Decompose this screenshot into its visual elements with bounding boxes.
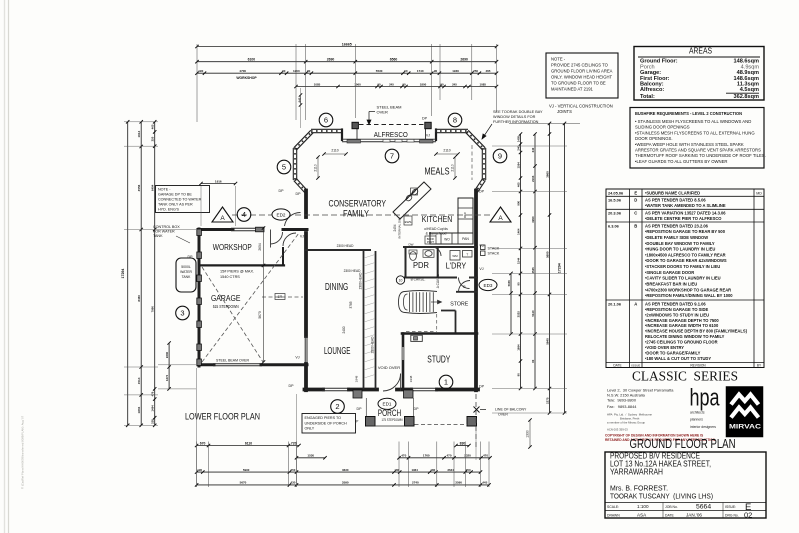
svg-text:2306: 2306: [165, 351, 169, 358]
svg-text:THERMOTUFF ROOF SARKING TO UND: THERMOTUFF ROOF SARKING TO UNDERSIDE OF …: [635, 153, 766, 158]
svg-text:1914: 1914: [137, 130, 141, 137]
svg-text:LOWER FLOOR PLAN: LOWER FLOOR PLAN: [185, 412, 260, 422]
svg-text:362.8sqm: 362.8sqm: [734, 94, 760, 100]
svg-text:240: 240: [531, 147, 535, 152]
svg-text:DW: DW: [409, 243, 414, 247]
svg-text:B: B: [634, 223, 637, 228]
svg-text:1804: 1804: [137, 406, 141, 413]
svg-text:•4700x2300 WORKSHOP TO GARAGE: •4700x2300 WORKSHOP TO GARAGE REAR: [645, 287, 731, 292]
svg-text:•1800x4500 ALFRESCO TO FAMILY: •1800x4500 ALFRESCO TO FAMILY REAR: [645, 252, 726, 257]
svg-text:250: 250: [291, 468, 296, 472]
svg-text:2740: 2740: [412, 481, 419, 485]
svg-text:JOINTS: JOINTS: [557, 109, 572, 114]
svg-text:BUSHFIRE REQUIREMENTS - LEVEL: BUSHFIRE REQUIREMENTS - LEVEL 2 CONSTRUC…: [635, 111, 743, 116]
svg-text:•REPOSITION GARAGE TO REAR BY: •REPOSITION GARAGE TO REAR BY 500: [645, 229, 726, 234]
svg-text:1494: 1494: [151, 405, 155, 412]
svg-text:DP: DP: [289, 384, 295, 388]
svg-text:190: 190: [198, 69, 203, 73]
svg-text:90: 90: [404, 69, 408, 73]
svg-text:1270: 1270: [165, 374, 169, 381]
svg-text:445: 445: [482, 481, 487, 485]
svg-text:1464: 1464: [516, 228, 520, 235]
svg-text:ONLY: ONLY: [305, 427, 315, 431]
svg-text:T: T: [466, 252, 468, 256]
svg-text:FOR WATER: FOR WATER: [153, 230, 175, 234]
svg-text:5990: 5990: [243, 468, 250, 472]
svg-text:2110: 2110: [331, 149, 338, 153]
svg-text:Fax: 9893-8844: Fax: 9893-8844: [607, 404, 637, 409]
svg-text:•WATER TANK AMENDED TO A SLIML: •WATER TANK AMENDED TO A SLIMLINE: [645, 203, 726, 208]
svg-text:DP: DP: [422, 117, 428, 121]
svg-text:24.05.06: 24.05.06: [608, 190, 624, 195]
svg-text:•LEAF GUARDS TO ALL GUTTERS BY: •LEAF GUARDS TO ALL GUTTERS BY OWNER: [635, 159, 728, 164]
svg-text:VJ: VJ: [479, 267, 483, 271]
svg-text:17294: 17294: [121, 269, 125, 279]
svg-text:EWS: EWS: [405, 220, 412, 224]
svg-text:WO: WO: [444, 238, 450, 242]
svg-text:90: 90: [440, 82, 444, 86]
svg-text:ONLY. WINDOW HEAD HEIGHT: ONLY. WINDOW HEAD HEIGHT: [551, 75, 612, 80]
svg-text:5640: 5640: [545, 338, 549, 345]
svg-text:MAINTAINED AT 2191: MAINTAINED AT 2191: [551, 87, 594, 92]
svg-text:UNDERSIDE OF PORCH: UNDERSIDE OF PORCH: [305, 421, 348, 425]
svg-text:Tele: 9893-8800: Tele: 9893-8800: [607, 398, 637, 403]
svg-text:2275: 2275: [545, 397, 549, 404]
svg-text:VJ: VJ: [300, 235, 304, 239]
svg-text:NOTE -: NOTE -: [158, 188, 171, 192]
svg-text:2110: 2110: [443, 149, 450, 153]
svg-text:STORE: STORE: [450, 302, 468, 308]
svg-text:250: 250: [151, 136, 155, 141]
svg-text:MIRVAC: MIRVAC: [729, 424, 761, 431]
svg-text:15# PIERS @ MAX.: 15# PIERS @ MAX.: [220, 270, 254, 274]
svg-text:1085: 1085: [480, 82, 487, 86]
svg-text:3: 3: [180, 309, 184, 318]
svg-text:CONTROL BOX: CONTROL BOX: [153, 225, 180, 229]
svg-text:FAMILY: FAMILY: [343, 209, 369, 219]
svg-text:A: A: [634, 301, 637, 306]
svg-text:ED2: ED2: [277, 212, 286, 217]
svg-text:6560: 6560: [390, 58, 398, 62]
svg-text:hpa: hpa: [690, 385, 720, 412]
svg-text:4700: 4700: [239, 69, 246, 73]
svg-text:ISSUE: ISSUE: [631, 363, 640, 367]
svg-text:•CAVITY SLIDER TO LAUNDRY IN L: •CAVITY SLIDER TO LAUNDRY IN LIEU: [645, 276, 721, 281]
svg-text:465: 465: [151, 124, 155, 129]
svg-text:1916: 1916: [215, 179, 222, 183]
svg-text:•DELETE FAMILY SIDE WINDOW: •DELETE FAMILY SIDE WINDOW: [645, 235, 708, 240]
svg-text:4: 4: [242, 210, 246, 219]
svg-text:7: 7: [390, 152, 394, 161]
svg-text:1530: 1530: [307, 454, 314, 458]
svg-text:INTERNAL DIM: INTERNAL DIM: [398, 217, 402, 239]
svg-text:© (CadRef Plans/HH0059/transfe: © (CadRef Plans/HH0059/transferred 8089/…: [21, 415, 25, 489]
svg-text:DOOR OPENINGS.: DOOR OPENINGS.: [635, 136, 673, 141]
svg-text:990: 990: [516, 200, 520, 205]
svg-text:8460: 8460: [137, 295, 141, 302]
svg-text:NOTE -: NOTE -: [551, 57, 566, 62]
svg-text:WM: WM: [452, 254, 458, 258]
svg-text:6110: 6110: [245, 441, 252, 445]
svg-text:9: 9: [498, 152, 502, 161]
svg-text:1544: 1544: [516, 257, 520, 264]
svg-text:1085: 1085: [314, 82, 321, 86]
svg-text:470: 470: [446, 454, 451, 458]
svg-text:• STAINLESS MESH FLYSCREENS TO: • STAINLESS MESH FLYSCREENS TO ALL WINDO…: [635, 119, 751, 124]
svg-text:2690: 2690: [460, 58, 468, 62]
svg-text:3785: 3785: [349, 301, 353, 308]
svg-text:VJ: VJ: [479, 244, 483, 248]
svg-text:AS PER TENDER DATED 9.1.06: AS PER TENDER DATED 9.1.06: [645, 301, 706, 306]
svg-text:WORKSHOP: WORKSHOP: [213, 243, 252, 252]
svg-text:TO GROUND FLOOR TO BE: TO GROUND FLOOR TO BE: [551, 81, 606, 86]
svg-text:architects: architects: [690, 411, 705, 415]
svg-text:2103: 2103: [531, 175, 535, 182]
svg-text:180: 180: [430, 468, 435, 472]
svg-text:•DOOR TO GARAGE REAR &2xWINDOW: •DOOR TO GARAGE REAR &2xWINDOWS: [645, 258, 727, 263]
svg-text:90: 90: [307, 69, 311, 73]
svg-text:CONNECTED TO WATER: CONNECTED TO WATER: [158, 198, 202, 202]
svg-text:6.3.06: 6.3.06: [608, 223, 620, 228]
svg-text:6: 6: [324, 116, 328, 125]
svg-text:245: 245: [452, 82, 457, 86]
svg-text:o/HEAD Cup'ds: o/HEAD Cup'ds: [424, 227, 448, 231]
svg-text:3590: 3590: [342, 481, 349, 485]
svg-text:VOID OVER: VOID OVER: [378, 365, 400, 370]
svg-text:830: 830: [460, 441, 466, 445]
svg-text:ASA: ASA: [637, 513, 647, 518]
svg-text:STEEL BEAM OVER: STEEL BEAM OVER: [216, 359, 249, 363]
svg-text:90: 90: [282, 69, 286, 73]
svg-text:DATE: DATE: [613, 363, 621, 367]
svg-text:CLASSIC SERIES: CLASSIC SERIES: [632, 369, 738, 384]
svg-text:5000L: 5000L: [181, 265, 191, 269]
svg-text:DP: DP: [479, 385, 485, 389]
svg-text:DP: DP: [357, 407, 363, 411]
svg-text:•REPOSITION GARAGE TO SIDE: •REPOSITION GARAGE TO SIDE: [645, 307, 708, 312]
svg-text:A: A: [498, 215, 503, 222]
svg-text:STUDY: STUDY: [427, 355, 450, 366]
svg-text:ENGAGED PIERS TO: ENGAGED PIERS TO: [305, 416, 342, 420]
svg-text:SLIDING DOOR OPENINGS: SLIDING DOOR OPENINGS: [635, 125, 690, 130]
svg-text:VJ: VJ: [295, 356, 299, 360]
svg-text:SCALE:: SCALE:: [607, 505, 619, 509]
svg-text:16665: 16665: [342, 42, 352, 46]
svg-text:AS PER TENDER DATED 8.5.06: AS PER TENDER DATED 8.5.06: [645, 198, 706, 203]
svg-text:90: 90: [434, 69, 438, 73]
svg-text:20.1.06: 20.1.06: [608, 301, 622, 306]
svg-text:A: A: [220, 215, 225, 222]
svg-text:2300 HEAD: 2300 HEAD: [337, 244, 355, 248]
svg-text:ALFRESCO: ALFRESCO: [374, 130, 408, 139]
svg-text:8: 8: [453, 116, 457, 125]
svg-text:DATE: DATE: [665, 514, 675, 518]
svg-text:OVER: OVER: [377, 110, 388, 115]
svg-text:90: 90: [402, 82, 406, 86]
svg-text:3660: 3660: [545, 171, 549, 178]
svg-text:GARAGE DP TO BE: GARAGE DP TO BE: [158, 193, 192, 197]
svg-text:•INCREASE HOUSE DEPTH BY 800 (: •INCREASE HOUSE DEPTH BY 800 (FAMILY/MEA…: [645, 329, 748, 334]
svg-text:02: 02: [744, 511, 752, 520]
svg-text:720: 720: [291, 441, 297, 445]
svg-text:•STAINLESS MESH FLYSCREENS TO: •STAINLESS MESH FLYSCREENS TO ALL EXTERN…: [635, 130, 755, 135]
svg-text:TANK: TANK: [182, 275, 192, 279]
svg-text:2110: 2110: [313, 164, 317, 171]
svg-text:D: D: [634, 198, 637, 203]
svg-text:•HUNG DOOR TO LAUNDRY IN LIEU: •HUNG DOOR TO LAUNDRY IN LIEU: [645, 247, 715, 252]
svg-text:2: 2: [335, 402, 339, 411]
svg-text:2604: 2604: [258, 243, 262, 251]
svg-text:476: 476: [151, 391, 155, 396]
svg-text:2525: 2525: [531, 267, 535, 274]
svg-text:REVISION: REVISION: [690, 363, 706, 367]
svg-text:3634: 3634: [447, 468, 454, 472]
svg-text:430: 430: [290, 481, 295, 485]
svg-text:•INCREASE GARAGE WIDTH TO 6100: •INCREASE GARAGE WIDTH TO 6100: [645, 323, 719, 328]
svg-text:& Rangehood: & Rangehood: [426, 232, 447, 236]
svg-text:VJ: VJ: [426, 134, 430, 138]
svg-text:5670: 5670: [240, 481, 247, 485]
svg-text:1: 1: [444, 378, 448, 387]
svg-text:20.3.06: 20.3.06: [608, 211, 622, 216]
svg-text:KITCHEN: KITCHEN: [422, 214, 453, 224]
svg-text:1200: 1200: [293, 69, 300, 73]
svg-text:ED1: ED1: [383, 402, 392, 407]
svg-text:515 STEPDOWN: 515 STEPDOWN: [213, 304, 239, 309]
svg-text:•DELETE CENTRE PIER TO ALFRESC: •DELETE CENTRE PIER TO ALFRESCO: [645, 216, 722, 221]
svg-text:465: 465: [516, 182, 520, 187]
svg-text:DP: DP: [479, 190, 485, 194]
svg-text:190: 190: [197, 468, 202, 472]
svg-text:1740: 1740: [417, 69, 424, 73]
svg-text:•DOUBLE BAY WINDOW TO FAMILY: •DOUBLE BAY WINDOW TO FAMILY: [645, 241, 715, 246]
svg-text:SEE TOORAK DOUBLE BAY: SEE TOORAK DOUBLE BAY: [493, 110, 543, 114]
svg-text:Alfresco:: Alfresco:: [640, 87, 664, 93]
svg-text:L'DRY: L'DRY: [446, 261, 467, 271]
svg-text:PAN: PAN: [462, 237, 469, 241]
svg-text:DINING: DINING: [325, 281, 348, 293]
svg-text:1930: 1930: [452, 69, 459, 73]
svg-text:planners: planners: [690, 418, 703, 422]
svg-text:CONSERVATORY: CONSERVATORY: [329, 199, 387, 209]
svg-text:645: 645: [298, 97, 302, 102]
svg-text:HYD. ENG'S: HYD. ENG'S: [158, 208, 180, 212]
svg-text:a member of the Mirvac Group: a member of the Mirvac Group: [607, 421, 645, 425]
svg-text:1948: 1948: [355, 375, 359, 382]
svg-text:PDR: PDR: [413, 260, 429, 270]
svg-text:LOUNGE: LOUNGE: [324, 345, 351, 357]
svg-text:MD: MD: [756, 191, 762, 195]
svg-text:•INCREASE GARAGE DEPTH TO 7500: •INCREASE GARAGE DEPTH TO 7500: [645, 318, 719, 323]
svg-text:DP: DP: [279, 189, 285, 193]
svg-text:17294: 17294: [558, 263, 562, 273]
svg-text:7990: 7990: [151, 306, 155, 313]
svg-text:•WEEPA WEEP HOLE WITH STAINLES: •WEEPA WEEP HOLE WITH STAINLESS STEEL SP…: [635, 142, 744, 147]
svg-text:5530: 5530: [376, 69, 383, 73]
svg-text:TANK ONLY AS PER: TANK ONLY AS PER: [158, 203, 193, 207]
svg-text:1540 CTRS: 1540 CTRS: [220, 275, 240, 279]
svg-text:AREAS: AREAS: [689, 46, 712, 56]
svg-text:2300 HEAD: 2300 HEAD: [344, 269, 362, 273]
svg-text:ISSUE:: ISSUE:: [725, 505, 736, 509]
svg-text:•REPOSITION FAMILY/DINING WALL: •REPOSITION FAMILY/DINING WALL BY 1000: [645, 293, 733, 298]
svg-text:2300 HEAD: 2300 HEAD: [371, 336, 375, 354]
svg-text:90: 90: [377, 82, 381, 86]
svg-text:ARRESTOR GRATES AND SQUARE VEN: ARRESTOR GRATES AND SQUARE VENT SPARK AR…: [635, 148, 761, 153]
svg-text:•SINGLE GARAGE DOOR: •SINGLE GARAGE DOOR: [645, 270, 694, 275]
svg-text:1564: 1564: [516, 162, 520, 169]
svg-text:•SUBURB NAME CLARIFIED: •SUBURB NAME CLARIFIED: [645, 190, 700, 195]
svg-text:A CAV.SL.: A CAV.SL.: [436, 274, 440, 289]
svg-text:•2745 CEILINGS TO GROUND FLOOR: •2745 CEILINGS TO GROUND FLOOR: [645, 340, 718, 345]
svg-text:interior designers: interior designers: [690, 425, 716, 429]
svg-text:GROUND FLOOR PLAN: GROUND FLOOR PLAN: [630, 437, 736, 451]
svg-text:ACN 003 359 03: ACN 003 359 03: [607, 428, 628, 432]
svg-text:240: 240: [516, 145, 520, 150]
svg-text:175 STEPDOWN: 175 STEPDOWN: [382, 418, 403, 422]
svg-text:WORKSHOP: WORKSHOP: [236, 76, 257, 80]
svg-text:250: 250: [151, 419, 155, 424]
svg-text:YARRAWARRAH: YARRAWARRAH: [610, 468, 663, 477]
svg-text:2300 HEAD: 2300 HEAD: [359, 272, 363, 290]
svg-text:DRG No.: DRG No.: [725, 514, 739, 518]
svg-text:STACK: STACK: [488, 252, 500, 256]
svg-text:DRAWN: DRAWN: [607, 514, 620, 518]
svg-text:•VOID OVER ENTRY: •VOID OVER ENTRY: [645, 345, 684, 350]
svg-text:16.5.06: 16.5.06: [608, 198, 622, 203]
svg-text:5690: 5690: [545, 251, 549, 258]
svg-text:REC: REC: [463, 211, 467, 218]
svg-text:670: 670: [200, 441, 206, 445]
svg-text:4.5sqm: 4.5sqm: [740, 87, 759, 93]
svg-text:ED3: ED3: [484, 283, 493, 288]
svg-text:5: 5: [282, 163, 286, 172]
svg-text:•2xWINDOWS TO STUDY IN LIEU: •2xWINDOWS TO STUDY IN LIEU: [645, 312, 709, 317]
svg-text:1760: 1760: [423, 454, 430, 458]
svg-text:5035: 5035: [507, 280, 511, 287]
svg-text:2110: 2110: [450, 164, 454, 171]
svg-text:3630: 3630: [342, 468, 349, 472]
svg-text:465: 465: [485, 69, 490, 73]
svg-text:2690: 2690: [327, 58, 335, 62]
svg-text:GARAGE: GARAGE: [211, 294, 241, 303]
svg-text:AS PER TENDER DATED 23.2.06: AS PER TENDER DATED 23.2.06: [645, 223, 709, 228]
svg-text:1485: 1485: [516, 135, 520, 142]
svg-text:B CAV.SL.: B CAV.SL.: [411, 278, 426, 282]
svg-text:3290: 3290: [531, 216, 535, 223]
svg-text:PROVIDE 2745 CEILINGS TO: PROVIDE 2745 CEILINGS TO: [551, 63, 609, 68]
svg-text:470: 470: [483, 454, 488, 458]
svg-text:WINDOW DETAILS FOR: WINDOW DETAILS FOR: [493, 115, 536, 119]
svg-text:•180 WALL & CUT OUT TO STUDY: •180 WALL & CUT OUT TO STUDY: [645, 356, 711, 361]
svg-text:PORCH: PORCH: [378, 408, 402, 418]
svg-text:1800: 1800: [420, 82, 427, 86]
svg-text:PORT: PORT: [427, 240, 435, 244]
svg-text:LINE OF BALCONY: LINE OF BALCONY: [495, 408, 527, 412]
svg-text:2400: 2400: [342, 326, 346, 333]
svg-text:MEALS: MEALS: [425, 167, 450, 178]
svg-text:JOB No.: JOB No.: [665, 505, 678, 509]
svg-text:6494: 6494: [151, 184, 155, 191]
svg-text:10: 10: [399, 279, 403, 283]
svg-text:1514: 1514: [137, 377, 141, 384]
svg-text:6100: 6100: [248, 58, 256, 62]
svg-text:5664: 5664: [696, 504, 711, 511]
svg-text:250: 250: [466, 468, 471, 472]
svg-text:BR: BR: [278, 295, 283, 299]
svg-text:VJ - VERTICAL CONSTRUCTION: VJ - VERTICAL CONSTRUCTION: [549, 104, 613, 109]
svg-text:470: 470: [401, 454, 406, 458]
svg-text:5140: 5140: [531, 310, 535, 317]
svg-text:90: 90: [516, 373, 520, 377]
svg-text:1964: 1964: [411, 468, 418, 472]
svg-text:90: 90: [531, 359, 535, 363]
svg-text:•DOOR TO GARAGE/FAMILY: •DOOR TO GARAGE/FAMILY: [645, 350, 701, 355]
svg-text:4556: 4556: [137, 184, 141, 191]
svg-text:250: 250: [473, 69, 478, 73]
svg-text:3590: 3590: [455, 481, 462, 485]
svg-text:E: E: [634, 190, 637, 195]
svg-text:245: 245: [389, 82, 394, 86]
svg-text:1694: 1694: [516, 344, 520, 351]
svg-text:JAN.'06: JAN.'06: [686, 513, 702, 518]
svg-text:DP: DP: [296, 192, 302, 196]
svg-text:C: C: [634, 211, 637, 216]
svg-text:2525: 2525: [516, 311, 520, 318]
svg-text:2454: 2454: [393, 224, 397, 231]
svg-text:GROUND FLOOR LIVING AREA: GROUND FLOOR LIVING AREA: [551, 69, 613, 74]
svg-text:Total:: Total:: [640, 94, 655, 100]
svg-text:DP: DP: [414, 407, 420, 411]
svg-text:WATER: WATER: [180, 270, 192, 274]
svg-text:•STACKER DOORS TO FAMILY IN LI: •STACKER DOORS TO FAMILY IN LIEU: [645, 264, 720, 269]
svg-text:RELOCATE DINING WINDOW TO FAMI: RELOCATE DINING WINDOW TO FAMILY: [645, 334, 725, 339]
svg-text:1:100: 1:100: [637, 504, 649, 509]
svg-text:1948: 1948: [409, 375, 413, 382]
svg-text:5670: 5670: [258, 311, 262, 319]
svg-text:•BREAKFAST BAR IN LIEU: •BREAKFAST BAR IN LIEU: [645, 281, 697, 286]
svg-text:1330: 1330: [525, 430, 529, 438]
svg-text:TOORAK TUSCANY (LIVING LHS): TOORAK TUSCANY (LIVING LHS): [610, 492, 713, 501]
svg-text:90: 90: [516, 282, 520, 286]
